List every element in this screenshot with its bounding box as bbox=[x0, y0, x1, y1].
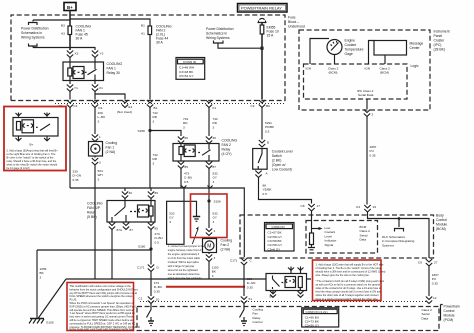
svg-text:3: 3 bbox=[213, 220, 215, 224]
wire branch to power distribution bracket (left) bbox=[33, 20, 70, 48]
svg-text:Coolant Level: Coolant Level bbox=[272, 150, 293, 154]
label box POWERTRAIN RELAY bbox=[238, 4, 288, 13]
svg-text:COOLING: COOLING bbox=[222, 139, 238, 143]
wire 473 D-BU from 85 to bus bbox=[181, 169, 192, 202]
svg-text:Fuse: Fuse bbox=[288, 16, 296, 20]
svg-text:Relay: Relay bbox=[222, 148, 231, 152]
svg-text:Relay 30: Relay 30 bbox=[107, 71, 120, 75]
label: Body Control Module (BCM) bbox=[436, 214, 447, 232]
svg-text:G105: G105 bbox=[46, 321, 54, 325]
svg-text:87: 87 bbox=[130, 228, 134, 232]
body control module dashed box bbox=[240, 215, 434, 258]
svg-text:87A: 87A bbox=[117, 228, 123, 232]
svg-text:F1: F1 bbox=[213, 106, 217, 110]
wire 1807 PU BCM to PCM bbox=[429, 266, 439, 296]
ipc logic dashed box bbox=[304, 64, 408, 99]
svg-text:10: 10 bbox=[156, 298, 160, 302]
svg-text:S156: S156 bbox=[214, 200, 222, 204]
svg-text:C171: C171 bbox=[137, 266, 145, 270]
wire 504 WH to ground bus bbox=[95, 165, 103, 279]
svg-text:C8: C8 bbox=[301, 204, 305, 208]
label: COOLING FAN 1 Relay 30 bbox=[107, 62, 123, 75]
connector C9 pin 27 (BCM out) bbox=[418, 259, 438, 266]
wire 742 RD from F1 to relay 30 bbox=[209, 108, 218, 137]
svg-text:30: 30 bbox=[129, 191, 133, 195]
svg-text:FAN 2: FAN 2 bbox=[222, 143, 232, 147]
svg-text:17: 17 bbox=[317, 204, 321, 208]
svg-text:Switch: Switch bbox=[272, 154, 282, 158]
wire 330 D-GN from C171 C to PCM bbox=[244, 265, 255, 296]
wire 330 D-GN from C1 down bbox=[70, 108, 81, 189]
connector pin 3 (fan2 motor) bbox=[206, 253, 216, 262]
ground (added at relay) bbox=[193, 217, 200, 222]
svg-text:engine harness, loose front of: engine harness, loose front of bbox=[168, 248, 202, 252]
svg-text:Systems: Systems bbox=[382, 243, 394, 247]
connector row dotted line (C1/D1/E1/B1/F1/C2) bbox=[55, 103, 285, 105]
connector C8 pin 17 (BCM) bbox=[301, 204, 321, 211]
label: IPC Class 2 Serial Data bbox=[357, 89, 374, 97]
label: Low Coolant Level Indicator Signal bbox=[325, 226, 337, 247]
connector pin 12 (PCM) bbox=[426, 296, 437, 304]
svg-text:86: 86 bbox=[155, 191, 159, 195]
svg-text:any DTCs (BOTH fans start ON): any DTCs (BOTH fans start ON) pumps will… bbox=[70, 291, 138, 295]
svg-text:87: 87 bbox=[213, 165, 217, 169]
svg-text:(2 NA): (2 NA) bbox=[221, 248, 231, 252]
motor M2 Cooling Fan 2 bbox=[203, 239, 233, 253]
svg-text:0.35: 0.35 bbox=[154, 289, 160, 293]
svg-text:POWERTRAIN RELAY: POWERTRAIN RELAY bbox=[241, 6, 282, 11]
label: Class 2 (BCM) message center bbox=[380, 67, 391, 75]
connector pin 1 (fan1 motor) bbox=[92, 135, 101, 142]
wire 409 L-BU from D1 to fan1 motor bbox=[95, 108, 105, 135]
svg-text:Module: Module bbox=[444, 314, 455, 318]
wire 742 RD from S158 down to s/p relay bbox=[150, 131, 158, 201]
svg-text:3: 3 bbox=[213, 125, 215, 129]
annotation arrow to added ground bbox=[192, 226, 199, 244]
pcm driver switch 2 (fan relay control) bbox=[240, 304, 248, 326]
svg-text:X3: X3 bbox=[75, 52, 79, 56]
gauge: Engine Coolant Temperature Gage bbox=[310, 39, 364, 65]
svg-text:COOLING: COOLING bbox=[87, 202, 103, 206]
svg-text:Relay: Relay bbox=[87, 211, 96, 215]
svg-text:(Not Used): (Not Used) bbox=[117, 110, 132, 114]
svg-text:Powertrain: Powertrain bbox=[444, 305, 460, 309]
relay K2 COOLING FAN 2 Relay bbox=[173, 144, 219, 162]
wire branch to relay contact Y3 bbox=[70, 48, 95, 51]
battery node B+ bbox=[64, 3, 76, 11]
fuse F45 COOLING FAN 1 Fuse 45 30 A bbox=[61, 19, 91, 50]
message center block bbox=[369, 41, 424, 65]
connector C1 (fan1 relay output) bbox=[59, 100, 78, 108]
connector B1 bbox=[147, 100, 158, 110]
svg-text:Fan 1: Fan 1 bbox=[106, 146, 115, 150]
svg-text:3: 3 bbox=[183, 125, 185, 129]
svg-text:Data: Data bbox=[422, 316, 429, 320]
svg-text:B1: B1 bbox=[141, 24, 145, 28]
svg-text:3: 3 bbox=[213, 180, 215, 184]
svg-text:EXP (2WD) or AC pressure great: EXP (2WD) or AC pressure greater than 19… bbox=[70, 304, 138, 308]
svg-text:Module: Module bbox=[436, 223, 447, 227]
svg-text:Temperature: Temperature bbox=[345, 48, 364, 52]
svg-text:2: 2 bbox=[372, 113, 374, 117]
wire fuse 44 down to B1 bbox=[149, 35, 151, 100]
svg-text:Serial Data: Serial Data bbox=[358, 93, 374, 97]
svg-text:0.5: 0.5 bbox=[263, 192, 268, 196]
svg-text:C5=6 GY: C5=6 GY bbox=[268, 247, 281, 251]
junction at EM55 wire bbox=[260, 47, 263, 50]
svg-text:behavior from the stock config: behavior from the stock configuration an… bbox=[70, 287, 138, 291]
svg-text:which gray wire has continuity: which gray wire has continuity bbox=[168, 276, 203, 280]
svg-text:3: 3 bbox=[214, 256, 216, 260]
wire relay control bus bbox=[70, 188, 244, 257]
svg-text:CONN ID (2.2L): CONN ID (2.2L) bbox=[306, 310, 328, 314]
connector 85 (s/p) bbox=[148, 223, 158, 231]
svg-text:(IPC): (IPC) bbox=[434, 43, 442, 47]
svg-text:0.35: 0.35 bbox=[370, 153, 376, 157]
annotation small text block (jumper note) bbox=[168, 244, 205, 280]
wire serial data out of IPC bbox=[366, 99, 368, 109]
svg-text:Signal: Signal bbox=[325, 243, 334, 247]
ground G105 bbox=[29, 319, 54, 325]
wire 742 RD from B1 to S158 bbox=[150, 108, 158, 131]
svg-text:FAN S/P: FAN S/P bbox=[87, 206, 101, 210]
motor M1 Cooling Fan 1 bbox=[89, 141, 118, 156]
bracket: power distribution top bbox=[29, 23, 38, 26]
svg-text:30 A: 30 A bbox=[76, 37, 84, 41]
svg-text:CONN ID: CONN ID bbox=[183, 60, 197, 64]
connector pin 1 (fan2 motor) bbox=[206, 229, 216, 236]
connector Y3 bbox=[92, 51, 104, 58]
connector 87A bbox=[109, 223, 123, 233]
svg-text:B3: B3 bbox=[61, 24, 65, 28]
instrument panel cluster dashed box bbox=[299, 30, 430, 110]
svg-text:COOLING: COOLING bbox=[107, 62, 123, 66]
svg-text:Low Coolant): Low Coolant) bbox=[272, 168, 292, 172]
svg-text:will operate but at FULL SPEED: will operate but at FULL SPEED. This dif… bbox=[70, 308, 135, 312]
wire 1150 BK to ground bus bbox=[209, 262, 219, 280]
svg-text:C3=56 GY: C3=56 GY bbox=[305, 324, 320, 328]
connector X1 bbox=[92, 81, 103, 92]
label: DLC Schematics in Computer/Integrating Systems bbox=[382, 235, 415, 247]
svg-text:B+ wire is the "switch" to the: B+ wire is the "switch" to the switch of… bbox=[7, 156, 54, 160]
svg-text:wires but not the rightward: wires but not the rightward bbox=[168, 268, 198, 272]
svg-text:Wiring Systems: Wiring Systems bbox=[21, 36, 45, 40]
svg-text:Coolant: Coolant bbox=[345, 43, 357, 47]
connector F1 bbox=[206, 100, 217, 110]
wire serial data inside BCM to C9 bbox=[368, 212, 430, 258]
svg-text:3: 3 bbox=[99, 161, 101, 165]
wire added ground jumper bbox=[184, 201, 197, 216]
svg-text:(BCM): (BCM) bbox=[329, 71, 338, 75]
svg-text:(2 BK): (2 BK) bbox=[272, 159, 282, 163]
wire C8 into BCM with signal arrow bbox=[312, 211, 323, 233]
node box 532 GY (annotated wire box) bbox=[167, 201, 184, 244]
svg-text:Engine: Engine bbox=[345, 39, 356, 43]
connector C4 pin 19 (BCM) bbox=[356, 205, 376, 212]
wire 532 GY from 87 to S156 bbox=[209, 169, 218, 202]
label: BCM Class 2 Serial Data bbox=[360, 225, 371, 242]
svg-text:C9: C9 bbox=[418, 261, 422, 265]
svg-text:1. connect a fused jumper to t: 1. connect a fused jumper to the bbox=[168, 244, 205, 248]
relay K1 COOLING FAN 1 Relay bbox=[63, 62, 104, 81]
svg-text:Schematics in: Schematics in bbox=[21, 31, 42, 35]
label: Cooling Fan Relay Control bbox=[253, 308, 264, 325]
label: Powertrain Control Module (PCM) bbox=[441, 305, 460, 323]
svg-text:Control: Control bbox=[436, 218, 447, 222]
splice S158 bbox=[138, 129, 152, 133]
svg-text:Wiring Systems: Wiring Systems bbox=[206, 36, 230, 40]
label: COOLING FAN S/P Relay (5 BK) bbox=[87, 202, 103, 220]
wire 1059 BK to G105 bbox=[37, 250, 47, 319]
svg-text:B+: B+ bbox=[67, 5, 73, 10]
svg-text:Power Distribution: Power Distribution bbox=[21, 27, 49, 31]
svg-text:IGN: IGN bbox=[306, 67, 312, 71]
note: Power Distribution Schematics in Wiring Systems (middle) bbox=[206, 27, 262, 48]
svg-text:WITH FANS ARE LIKE THAT ARE RU: WITH FANS ARE LIKE THAT ARE RUNNING WITH… bbox=[70, 328, 135, 332]
svg-text:PLUS:: PLUS: bbox=[70, 298, 78, 302]
svg-text:Fan 2: Fan 2 bbox=[221, 243, 230, 247]
relay K3 COOLING FAN S/P Relay bbox=[107, 199, 155, 223]
svg-text:D1: D1 bbox=[99, 106, 103, 110]
junction dot DLC stem bbox=[398, 217, 401, 220]
connector 86 (fan s/p relay) bbox=[148, 188, 158, 199]
svg-text:C1: C1 bbox=[74, 104, 78, 108]
svg-text:3: 3 bbox=[98, 177, 100, 181]
svg-text:B: B bbox=[267, 141, 269, 145]
svg-text:Panel: Panel bbox=[434, 34, 443, 38]
connector A bbox=[255, 171, 268, 178]
highlight red box (wiring note right) bbox=[313, 260, 382, 301]
svg-text:3: 3 bbox=[153, 119, 155, 123]
svg-text:B+: B+ bbox=[30, 143, 34, 147]
splice S156 bbox=[207, 199, 221, 203]
svg-text:Message: Message bbox=[410, 42, 424, 46]
wire 473 D-BU from 85 to S160 bbox=[151, 230, 163, 249]
svg-text:they were in series and gettin: they were in series and getting 1/2 norm… bbox=[70, 315, 134, 319]
label: Fuse Block - Underhood bbox=[288, 16, 305, 29]
svg-text:* The contacts to both (on all: * The contacts to both (on all 3 relays … bbox=[316, 279, 385, 283]
wire into relay K1 bbox=[70, 58, 95, 63]
svg-text:0.35: 0.35 bbox=[432, 281, 438, 285]
svg-text:S160: S160 bbox=[138, 245, 146, 249]
svg-text:M: M bbox=[207, 244, 211, 250]
svg-text:(4 GY): (4 GY) bbox=[222, 152, 232, 156]
svg-text:1: 1 bbox=[99, 135, 101, 139]
svg-text:B6: B6 bbox=[266, 104, 270, 108]
svg-text:0.5: 0.5 bbox=[155, 240, 160, 244]
svg-text:feed the relay contact circuit: feed the relay contact circuits (all 3 o… bbox=[316, 290, 382, 294]
svg-text:C5=54 GY: C5=54 GY bbox=[179, 74, 194, 78]
svg-text:Data: Data bbox=[360, 238, 367, 242]
connector X3 bbox=[67, 51, 79, 58]
svg-text:3: 3 bbox=[212, 274, 214, 278]
svg-text:will be re-ripped on HIGH SPEE: will be re-ripped on HIGH SPEED mode whe… bbox=[70, 318, 135, 322]
svg-text:Underhood: Underhood bbox=[288, 25, 305, 29]
svg-text:15 A: 15 A bbox=[267, 34, 275, 38]
svg-text:30 A: 30 A bbox=[156, 41, 164, 45]
wire 1807 PU from IPC to BCM C4 bbox=[367, 117, 377, 205]
connector 87 (s/p) bbox=[123, 223, 133, 233]
label: Instrument Panel Cluster (IPC) (28 BK) bbox=[434, 30, 450, 52]
svg-text:to the Light Blue wire of Cool: to the Light Blue wire of Cooling Fan 1.… bbox=[7, 152, 57, 156]
svg-text:(BCM): (BCM) bbox=[380, 71, 389, 75]
fuse EM55 Fuse 10 15 A bbox=[260, 23, 279, 100]
svg-text:Control: Control bbox=[444, 309, 455, 313]
svg-text:C4: C4 bbox=[356, 205, 360, 209]
svg-text:(BCM): (BCM) bbox=[436, 227, 446, 231]
svg-text:one as absolutely determine: one as absolutely determine bbox=[168, 272, 200, 276]
svg-text:19: 19 bbox=[373, 205, 377, 209]
svg-text:(5 BK): (5 BK) bbox=[87, 215, 97, 219]
svg-text:0.5: 0.5 bbox=[184, 180, 189, 184]
svg-text:0.35: 0.35 bbox=[73, 178, 79, 182]
wire S160 to C171 D bbox=[150, 248, 152, 265]
note text (red, bottom-left) bbox=[70, 284, 141, 332]
label: Class 2 Serial Data (PCM) bbox=[422, 308, 433, 320]
connector 30 (fan2 relay) bbox=[206, 136, 216, 144]
connector C2/B6 bbox=[251, 100, 271, 108]
svg-text:2. Add a large (30Amp) relay t: 2. Add a large (30Amp) relay that will f… bbox=[7, 149, 59, 153]
svg-text:(PCM): (PCM) bbox=[444, 318, 454, 322]
connector E1 (Not Used) bbox=[117, 100, 133, 114]
svg-text:0.35: 0.35 bbox=[247, 285, 253, 289]
junction marks on bus bbox=[181, 186, 212, 189]
svg-text:Body: Body bbox=[436, 214, 444, 218]
wire S158 to fan2 relay coil 86 bbox=[150, 117, 188, 136]
connector 86 (fan2 relay) bbox=[178, 136, 188, 144]
svg-text:Y3: Y3 bbox=[100, 52, 104, 56]
bcm logic inner dashed box bbox=[306, 221, 378, 254]
svg-text:Center: Center bbox=[410, 46, 421, 50]
label: Class 2 (BCM) gauge bbox=[328, 67, 339, 75]
note text (red, right) bbox=[316, 262, 386, 301]
svg-text:(Open w/: (Open w/ bbox=[272, 163, 286, 167]
connector 87 (fan2 relay) bbox=[206, 162, 216, 170]
svg-text:splice the other side of all 3: splice the other side of all 3 relays to… bbox=[316, 293, 379, 297]
highlight red box (added ground callout) bbox=[191, 194, 228, 238]
svg-text:Logic: Logic bbox=[411, 64, 419, 68]
svg-text:3: 3 bbox=[98, 119, 100, 123]
svg-text:in of dc from the motor cable: in of dc from the motor cable bbox=[168, 256, 201, 260]
svg-text:S158: S158 bbox=[138, 129, 146, 133]
switch: Coolant Level Switch bbox=[253, 149, 293, 172]
svg-text:IGN: IGN bbox=[365, 67, 371, 71]
svg-text:commanded to FULL SPEED at. OS: commanded to FULL SPEED at. OSF 2 V/O or… bbox=[70, 321, 136, 325]
svg-text:Cooling: Cooling bbox=[221, 239, 233, 243]
svg-text:C171: C171 bbox=[230, 259, 238, 263]
svg-text:CONN ID: CONN ID bbox=[272, 225, 286, 229]
connector 85 (fan2 relay) bbox=[178, 162, 188, 170]
svg-text:X1: X1 bbox=[99, 86, 103, 90]
note: Power Distribution Schematics in Wiring Systems (left) bbox=[21, 27, 49, 40]
wire branch to fuse 44 bbox=[70, 19, 150, 26]
wire 87A down to ground bus bbox=[111, 230, 113, 280]
pcm driver switch 1 (fan control) bbox=[147, 304, 155, 326]
svg-text:Instrument: Instrument bbox=[434, 30, 450, 34]
connector table CONN ID (2.2L) bbox=[302, 308, 339, 328]
svg-text:of Cooling Fan 2. The B+ is th: of Cooling Fan 2. The B+ is the "switch"… bbox=[316, 266, 382, 270]
svg-text:wires to the relay B+ switch t: wires to the relay B+ switch the motor s… bbox=[7, 163, 58, 167]
svg-text:FULL SPEED whenever the switch: FULL SPEED whenever the switch energizes… bbox=[70, 294, 133, 298]
highlight red box (relay detail top-left) bbox=[4, 107, 66, 171]
bracket: power distribution bottom bbox=[29, 44, 38, 47]
svg-text:them to a stock-mounted switch: them to a stock-mounted switch. Ground t… bbox=[316, 297, 379, 301]
DLC bracket bbox=[395, 219, 404, 232]
svg-text:(2 NA): (2 NA) bbox=[106, 150, 116, 154]
svg-text:C2: C2 bbox=[251, 104, 255, 108]
svg-text:51: 51 bbox=[249, 297, 253, 301]
annotation red underline bbox=[166, 286, 245, 288]
svg-text:1: 1 bbox=[214, 229, 216, 233]
powertrain control module dashed box bbox=[137, 307, 439, 331]
svg-text:A3: A3 bbox=[61, 32, 65, 36]
connector pin 3 (fan1 motor) bbox=[92, 156, 101, 165]
svg-text:12: 12 bbox=[433, 296, 437, 300]
svg-text:When the PCM commands "Low Spe: When the PCM commands "Low Speed" fan op… bbox=[70, 301, 134, 305]
svg-text:Gage: Gage bbox=[345, 52, 353, 56]
svg-text:B1: B1 bbox=[154, 106, 158, 110]
svg-text:30: 30 bbox=[213, 136, 217, 140]
wire diagonal from ground bus to G105 bbox=[38, 279, 66, 319]
connector pin 51 (PCM) bbox=[241, 297, 252, 304]
svg-text:as with car ACs so fail to a c: as with car ACs so fail to a common swit… bbox=[316, 282, 381, 286]
svg-text:3: 3 bbox=[40, 275, 42, 279]
fuse F44 COOLING FAN 2 Fuse 44 30 A bbox=[141, 24, 172, 45]
svg-text:(28 BK): (28 BK) bbox=[434, 48, 446, 52]
pcm connector dotted line bbox=[140, 301, 426, 303]
svg-text:85: 85 bbox=[155, 227, 159, 231]
connector 30 (fan s/p relay) bbox=[122, 188, 132, 199]
wire ground bus bbox=[66, 278, 311, 280]
wire X1 to D1 and E1 jog bbox=[95, 92, 125, 100]
svg-text:3: 3 bbox=[169, 220, 171, 224]
svg-text:Block –: Block – bbox=[288, 20, 299, 24]
fuse block underhood dashed box bbox=[11, 15, 285, 101]
resistor (low coolant pull-up) bbox=[308, 233, 315, 250]
svg-text:wire. Always give the the wire: wire. Always give the the wire to the co… bbox=[316, 273, 370, 277]
wire Y1 to C1 bbox=[69, 92, 71, 100]
wire 88 YE/BK to BCM C8 bbox=[259, 178, 312, 204]
label: COOLING FAN 2 Relay (4 GY) bbox=[222, 139, 238, 157]
svg-text:involved. Will be kept splice: involved. Will be kept splice bbox=[168, 260, 200, 264]
connector table CONN ID (BCM) bbox=[265, 223, 295, 252]
svg-text:with 2 large r/2 gal gray: with 2 large r/2 gal gray bbox=[168, 264, 195, 268]
svg-text:"Low Speed" where BOTH fans wo: "Low Speed" where BOTH fans would run at… bbox=[70, 311, 136, 315]
svg-text:3: 3 bbox=[153, 161, 155, 165]
svg-text:be 12 gage (2 mm2): be 12 gage (2 mm2) bbox=[7, 166, 30, 170]
wire B+ stem bbox=[69, 11, 71, 20]
svg-text:E1: E1 bbox=[129, 105, 133, 109]
svg-text:This modification will resolve: This modification will resolve onto crui… bbox=[70, 284, 132, 288]
svg-text:B+: B+ bbox=[270, 295, 274, 299]
svg-text:Schematics in: Schematics in bbox=[206, 32, 227, 36]
relay detail drawing (top-left annotation) bbox=[13, 113, 58, 147]
connector pin 2 (IPC) bbox=[364, 110, 374, 117]
wire 473 D-BU from C171 D to PCM bbox=[151, 272, 162, 297]
coolant level switch connector B bbox=[259, 108, 275, 148]
connector Y1 bbox=[67, 81, 78, 92]
wire S160 to G105 horizontal bbox=[37, 249, 151, 251]
connector D1 bbox=[92, 100, 103, 110]
svg-text:A1: A1 bbox=[141, 32, 145, 36]
svg-text:Power Distribution: Power Distribution bbox=[206, 27, 234, 31]
svg-text:Cluster: Cluster bbox=[434, 39, 446, 43]
svg-text:FAN 1: FAN 1 bbox=[107, 67, 117, 71]
connector C1 pin 10 (PCM) bbox=[139, 297, 160, 304]
svg-text:Control: Control bbox=[253, 320, 263, 324]
connector C171 C bbox=[230, 258, 253, 265]
svg-text:85: 85 bbox=[185, 165, 189, 169]
